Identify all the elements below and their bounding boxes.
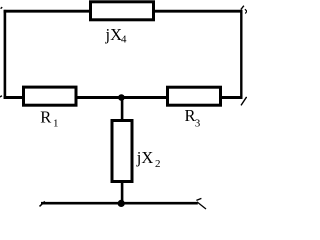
svg-text:R: R: [40, 108, 51, 127]
wire: left vertical branch: [4, 10, 7, 99]
reactance jX4: [91, 2, 154, 20]
terminal tick: top-left corner artifact: [1, 7, 3, 8]
junction dot: middle rail node: [118, 94, 125, 101]
svg-text:4: 4: [121, 34, 127, 46]
svg-text:1: 1: [53, 118, 59, 130]
terminal tick: top-right diagonal: [241, 6, 244, 10]
terminal tick: top-right chevron: [245, 9, 247, 13]
wire: bottom rail: [41, 202, 198, 205]
terminal tick: bottom rail left end: [40, 201, 45, 206]
wire: top rail from left corner to right corner: [4, 10, 243, 13]
svg-text:3: 3: [195, 118, 201, 130]
terminal tick: left middle rail end: [0, 96, 2, 97]
terminal tick: bottom rail right end diagonal: [197, 202, 206, 209]
wire: middle rail through R1 and R3: [4, 96, 243, 99]
terminal tick: right middle junction diagonal: [241, 97, 247, 106]
resistor R3: [168, 87, 221, 105]
svg-text:jX: jX: [105, 25, 123, 44]
label R3: [185, 106, 201, 130]
resistor R1: [24, 87, 77, 105]
terminal tick: bottom rail right end upper dash: [196, 198, 201, 200]
svg-text:jX: jX: [136, 148, 154, 167]
junction dot: bottom rail node: [118, 200, 125, 207]
svg-text:2: 2: [155, 158, 161, 170]
label jX4: [105, 25, 128, 46]
wire: right vertical branch: [240, 10, 242, 99]
label jX2: [136, 148, 161, 170]
wire: jX2 vertical stem from middle junction to bottom rail: [121, 97, 124, 203]
label R1: [40, 108, 58, 130]
reactance jX2: [112, 121, 132, 182]
